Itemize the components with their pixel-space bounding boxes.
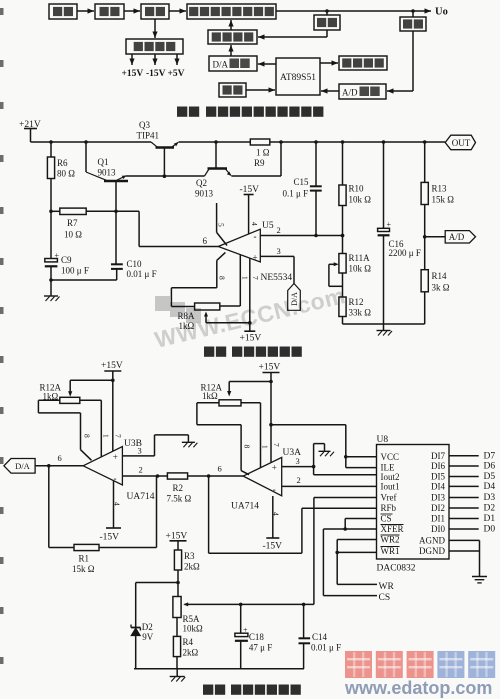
svg-text:2kΩ: 2kΩ bbox=[183, 648, 199, 658]
svg-text:R3: R3 bbox=[184, 551, 195, 561]
svg-text:10k Ω: 10k Ω bbox=[349, 195, 372, 205]
svg-text:CS: CS bbox=[381, 514, 392, 524]
svg-text:15k Ω: 15k Ω bbox=[432, 195, 455, 205]
svg-text:7: 7 bbox=[251, 276, 260, 280]
svg-text:DAC0832: DAC0832 bbox=[377, 564, 416, 574]
svg-text:0.1 μ F: 0.1 μ F bbox=[283, 189, 309, 199]
svg-text:DI5: DI5 bbox=[431, 472, 445, 482]
svg-text:R7: R7 bbox=[67, 218, 78, 228]
svg-text:R4: R4 bbox=[183, 637, 194, 647]
svg-text:1kΩ: 1kΩ bbox=[179, 321, 195, 331]
svg-text:8: 8 bbox=[243, 445, 252, 449]
svg-text:+: + bbox=[253, 253, 258, 263]
svg-text:Q1: Q1 bbox=[98, 157, 109, 167]
svg-text:-15V: -15V bbox=[100, 533, 120, 543]
svg-text:DI1: DI1 bbox=[431, 514, 445, 524]
svg-text:D/A: D/A bbox=[213, 60, 229, 70]
svg-text:33k Ω: 33k Ω bbox=[349, 308, 372, 318]
svg-text:2kΩ: 2kΩ bbox=[184, 562, 200, 572]
svg-text:WR2: WR2 bbox=[381, 535, 400, 545]
svg-text:2200 μ F: 2200 μ F bbox=[389, 248, 421, 258]
svg-text:3: 3 bbox=[296, 456, 300, 466]
svg-text:1: 1 bbox=[261, 445, 270, 449]
svg-text:+5V: +5V bbox=[168, 69, 185, 79]
svg-text:RFb: RFb bbox=[381, 503, 397, 513]
svg-text:15k Ω: 15k Ω bbox=[72, 564, 95, 574]
svg-text:D/A: D/A bbox=[290, 292, 299, 306]
svg-text:Uo: Uo bbox=[435, 7, 448, 18]
svg-text:R12: R12 bbox=[349, 297, 364, 307]
svg-text:ILE: ILE bbox=[381, 463, 395, 473]
svg-text:1 Ω: 1 Ω bbox=[256, 148, 270, 158]
svg-text:R11A: R11A bbox=[349, 253, 371, 263]
svg-text:C15: C15 bbox=[294, 177, 310, 187]
svg-text:A/D: A/D bbox=[449, 232, 465, 242]
svg-text:XFER: XFER bbox=[381, 524, 404, 534]
svg-text:R1: R1 bbox=[79, 554, 90, 564]
svg-text:www.edatop.com: www.edatop.com bbox=[344, 678, 492, 698]
svg-text:C9: C9 bbox=[61, 255, 72, 265]
svg-text:+: + bbox=[387, 220, 392, 229]
svg-text:80 Ω: 80 Ω bbox=[57, 169, 75, 179]
svg-text:D7: D7 bbox=[484, 451, 496, 461]
svg-text:2: 2 bbox=[139, 465, 143, 475]
svg-text:3: 3 bbox=[277, 246, 281, 256]
svg-text:D4: D4 bbox=[484, 482, 496, 492]
svg-text:1: 1 bbox=[241, 276, 250, 280]
svg-text:DI7: DI7 bbox=[431, 451, 445, 461]
svg-text:+15V: +15V bbox=[240, 334, 262, 344]
svg-text:Iout1: Iout1 bbox=[381, 481, 400, 491]
svg-text:47 μ F: 47 μ F bbox=[249, 643, 272, 653]
svg-text:4: 4 bbox=[250, 222, 259, 226]
svg-text:OUT: OUT bbox=[452, 138, 471, 148]
svg-text:R10: R10 bbox=[349, 184, 365, 194]
svg-text:6: 6 bbox=[203, 236, 208, 246]
svg-text:UA714: UA714 bbox=[127, 492, 155, 502]
svg-text:R5A: R5A bbox=[183, 614, 201, 624]
svg-text:R2: R2 bbox=[173, 483, 184, 493]
svg-text:1: 1 bbox=[102, 434, 111, 438]
svg-text:A/D: A/D bbox=[342, 88, 358, 98]
svg-text:D2: D2 bbox=[484, 504, 496, 514]
svg-text:7: 7 bbox=[114, 434, 123, 438]
svg-text:D/A: D/A bbox=[15, 461, 31, 471]
svg-text:3: 3 bbox=[138, 446, 142, 456]
svg-text:R6: R6 bbox=[57, 158, 68, 168]
svg-text:R8A: R8A bbox=[178, 311, 196, 321]
svg-text:7: 7 bbox=[272, 443, 281, 447]
svg-text:D0: D0 bbox=[484, 525, 496, 535]
svg-text:+15V: +15V bbox=[259, 363, 281, 373]
svg-text:D2: D2 bbox=[142, 622, 153, 632]
svg-text:8: 8 bbox=[218, 276, 227, 280]
svg-text:2: 2 bbox=[277, 225, 281, 235]
svg-text:DI2: DI2 bbox=[431, 503, 445, 513]
svg-text:R13: R13 bbox=[432, 184, 448, 194]
svg-text:WR1: WR1 bbox=[381, 546, 400, 556]
svg-text:10 Ω: 10 Ω bbox=[64, 230, 82, 240]
svg-text:100 μ F: 100 μ F bbox=[61, 266, 89, 276]
svg-text:10kΩ: 10kΩ bbox=[183, 624, 204, 634]
svg-text:D5: D5 bbox=[484, 472, 496, 482]
svg-text:6: 6 bbox=[58, 453, 62, 463]
svg-text:DI4: DI4 bbox=[431, 481, 445, 491]
svg-text:DGND: DGND bbox=[419, 546, 445, 556]
svg-text:UA714: UA714 bbox=[231, 502, 259, 512]
svg-text:AGND: AGND bbox=[419, 535, 445, 545]
svg-text:TIP41: TIP41 bbox=[137, 131, 160, 141]
svg-text:R9: R9 bbox=[254, 158, 265, 168]
svg-text:0.01 μ F: 0.01 μ F bbox=[127, 269, 157, 279]
svg-text:D3: D3 bbox=[484, 493, 496, 503]
svg-text:NE5534: NE5534 bbox=[261, 273, 293, 283]
svg-text:R14: R14 bbox=[432, 271, 448, 281]
svg-text:CS: CS bbox=[379, 593, 391, 603]
svg-text:WR: WR bbox=[379, 582, 395, 592]
svg-text:-: - bbox=[254, 232, 257, 242]
svg-text:0.01 μ F: 0.01 μ F bbox=[311, 643, 341, 653]
svg-text:+15V: +15V bbox=[122, 69, 144, 79]
svg-text:6: 6 bbox=[218, 464, 222, 474]
svg-text:-15V: -15V bbox=[146, 69, 166, 79]
svg-text:9013: 9013 bbox=[98, 168, 117, 178]
svg-text:Vref: Vref bbox=[381, 493, 397, 503]
svg-text:5: 5 bbox=[217, 223, 226, 227]
svg-text:U8: U8 bbox=[377, 435, 389, 445]
svg-text:8: 8 bbox=[83, 434, 92, 438]
svg-text:9013: 9013 bbox=[195, 189, 214, 199]
svg-text:DI0: DI0 bbox=[431, 524, 445, 534]
svg-text:Q2: Q2 bbox=[196, 178, 207, 188]
svg-text:DI3: DI3 bbox=[431, 493, 445, 503]
svg-text:10k Ω: 10k Ω bbox=[349, 264, 372, 274]
svg-text:AT89S51: AT89S51 bbox=[280, 73, 316, 83]
svg-text:3k Ω: 3k Ω bbox=[432, 283, 450, 293]
svg-text:+: + bbox=[243, 626, 248, 635]
svg-text:Q3: Q3 bbox=[139, 120, 150, 130]
svg-text:-15V: -15V bbox=[240, 185, 260, 195]
svg-text:U5: U5 bbox=[262, 221, 274, 231]
svg-text:9V: 9V bbox=[142, 632, 154, 642]
svg-text:-15V: -15V bbox=[263, 542, 283, 552]
svg-text:C14: C14 bbox=[312, 632, 328, 642]
svg-text:D1: D1 bbox=[484, 514, 496, 524]
svg-text:7.5k Ω: 7.5k Ω bbox=[167, 494, 192, 504]
svg-text:D6: D6 bbox=[484, 462, 496, 472]
svg-text:C10: C10 bbox=[127, 259, 143, 269]
svg-text:+15V: +15V bbox=[101, 361, 123, 371]
svg-text:-: - bbox=[273, 485, 276, 495]
svg-text:DI6: DI6 bbox=[431, 461, 445, 471]
svg-text:C18: C18 bbox=[249, 632, 265, 642]
svg-text:1kΩ: 1kΩ bbox=[202, 391, 218, 401]
svg-text:+: + bbox=[55, 251, 60, 260]
svg-text:+: + bbox=[272, 463, 277, 473]
svg-text:2: 2 bbox=[297, 475, 301, 485]
svg-text:VCC: VCC bbox=[381, 452, 400, 462]
svg-text:+: + bbox=[113, 452, 118, 462]
